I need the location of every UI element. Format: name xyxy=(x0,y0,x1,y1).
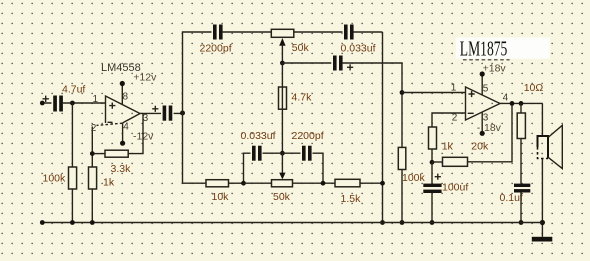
node output 20k riser xyxy=(510,101,515,106)
wire top row to right riser xyxy=(353,31,382,33)
svg-text:18v: 18v xyxy=(484,122,502,134)
capacitor 2200pf lower xyxy=(301,146,313,161)
resistor 1.5k xyxy=(335,179,360,187)
resistor 1k U2 xyxy=(429,127,437,149)
capacitor 100uf electrolytic (+) xyxy=(423,174,441,193)
wire 100k left lead down xyxy=(71,103,73,223)
resistor 100k right xyxy=(398,147,406,169)
pin number 2 U2 xyxy=(452,113,458,124)
op-amp U2 LM1875 triangle xyxy=(466,87,501,120)
svg-text:+12v: +12v xyxy=(133,72,157,84)
wire LM1875 pin1 xyxy=(402,92,466,94)
wire op-amp U1 pin 4 to -12v xyxy=(120,123,125,146)
capacitor 2200pf top xyxy=(212,25,224,40)
potentiometer 50k bottom box xyxy=(272,180,293,187)
wire op-amp U1 pin 8 to +12v xyxy=(120,81,125,105)
capacitor 0.033uf lower xyxy=(251,146,263,161)
label -12v xyxy=(133,131,154,143)
chip label LM4558 xyxy=(101,62,141,74)
capacitor 4.7uf input xyxy=(43,96,63,112)
value label 1k U2 xyxy=(442,141,454,153)
pin number 5 U2 xyxy=(483,83,489,94)
svg-text:0.1uf: 0.1uf xyxy=(500,192,523,204)
pin number 4 xyxy=(123,122,129,133)
capacitor 0.1uf zobel xyxy=(514,184,530,193)
wire ground bus xyxy=(42,222,542,224)
wire top row middle xyxy=(222,31,271,33)
wire 20k row xyxy=(432,103,512,162)
pin number 2 xyxy=(91,123,97,134)
svg-text:+18v: +18v xyxy=(483,62,507,74)
svg-text:4.7k: 4.7k xyxy=(292,91,313,103)
node after coupling cap xyxy=(180,111,185,116)
value label 100k left xyxy=(43,173,67,185)
node junction after input cap xyxy=(70,101,75,106)
wire wiper node to cap 0.47 xyxy=(282,62,333,64)
pin number 3 output xyxy=(143,113,149,124)
wire speaker drop xyxy=(541,103,543,136)
svg-text:4: 4 xyxy=(123,122,129,133)
wire 3.3k feedback row xyxy=(92,113,143,153)
pin number 3 U2 xyxy=(483,113,489,124)
label +12v xyxy=(133,72,157,84)
potentiometer 50k bottom wiper arrow xyxy=(279,153,285,179)
value label 100uf xyxy=(442,182,468,194)
value label 3.3k xyxy=(111,163,132,175)
node bottom row left xyxy=(241,181,246,186)
node bottom row right xyxy=(321,181,326,186)
white label box xyxy=(456,38,550,59)
value label 0.033uf lower xyxy=(241,130,276,142)
value label 50k bottom xyxy=(273,191,291,203)
svg-text:2: 2 xyxy=(452,113,458,124)
value label 10ohm xyxy=(524,82,544,94)
pin number 4 U2 xyxy=(503,93,509,104)
wire bottom row left xyxy=(183,182,207,184)
svg-text:20k: 20k xyxy=(471,141,489,153)
capacitor 0.033uf top xyxy=(343,25,355,40)
wire U2 pin 5 to +18v xyxy=(480,71,485,95)
node 100k ground xyxy=(400,220,405,225)
node 100k ground left xyxy=(70,220,75,225)
label +18v xyxy=(483,62,507,74)
value label 0.1uf xyxy=(500,192,523,204)
speaker LS1 xyxy=(538,125,563,168)
ground bar xyxy=(532,237,553,242)
wire 0.1uf to ground xyxy=(520,193,522,223)
node input terminal xyxy=(40,101,45,106)
wire U1 output to coupling cap xyxy=(140,112,183,114)
pin number 1 U2 xyxy=(451,83,457,94)
svg-text:2200pf: 2200pf xyxy=(292,130,324,142)
wire speaker to ground xyxy=(541,159,543,237)
wire U2 pin 3 to -18v xyxy=(480,112,485,136)
potentiometer 50k top wiper arrow xyxy=(279,38,285,63)
wire left riser of tone network xyxy=(183,32,214,183)
wire cap to LM1875 input riser xyxy=(343,63,403,223)
value label 2200pf top xyxy=(200,43,232,55)
node wiper junction xyxy=(280,61,285,66)
svg-text:1: 1 xyxy=(451,83,457,94)
node 1k ground left xyxy=(90,220,95,225)
wire 1.5k to right riser xyxy=(360,182,383,184)
svg-text:10k: 10k xyxy=(212,191,230,203)
value label 1.5k xyxy=(341,193,362,205)
svg-text:4.7uf: 4.7uf xyxy=(62,84,85,96)
node right riser ground xyxy=(380,220,385,225)
value label 1k left xyxy=(103,177,115,189)
wire pot to node right xyxy=(293,182,336,184)
wire mid cap row xyxy=(244,153,324,183)
svg-text:3: 3 xyxy=(483,113,489,124)
wire node to pot xyxy=(244,182,272,184)
resistor 1k first stage xyxy=(89,167,97,189)
node feedback junction xyxy=(430,160,435,165)
svg-text:0.033uf: 0.033uf xyxy=(341,43,376,55)
wire 1k to 20k node xyxy=(431,149,433,162)
resistor 10ohm xyxy=(517,113,525,139)
svg-text:5: 5 xyxy=(483,83,489,94)
svg-text:100k: 100k xyxy=(402,172,426,184)
value label 2200pf lower xyxy=(292,130,324,142)
wire 10ohm lead xyxy=(520,103,522,184)
svg-text:50k: 50k xyxy=(292,42,310,54)
wire U2 pin2 to 1k xyxy=(432,113,466,127)
resistor 10k xyxy=(206,180,229,187)
svg-text:1.5k: 1.5k xyxy=(341,193,362,205)
svg-text:1k: 1k xyxy=(103,177,115,189)
resistor 20k feedback xyxy=(443,157,468,166)
svg-text:2200pf: 2200pf xyxy=(200,43,232,55)
wire 4.7k to mid node xyxy=(281,63,283,153)
value label 100k right xyxy=(402,172,426,184)
node ground bus left end xyxy=(40,220,45,225)
resistor 100k input bias xyxy=(69,167,77,189)
svg-text:3.3k: 3.3k xyxy=(111,163,132,175)
svg-text:100k: 100k xyxy=(43,173,67,185)
wire 10k to node xyxy=(229,182,244,184)
svg-text:0.033uf: 0.033uf xyxy=(241,130,276,142)
wire U2 output xyxy=(500,102,542,104)
value label 4.7uf xyxy=(62,84,85,96)
wire right riser down to bottom xyxy=(382,32,384,223)
node output 10ohm xyxy=(519,101,524,106)
wire top row right xyxy=(294,31,344,33)
node right riser bottom row xyxy=(380,181,385,186)
svg-text:1k: 1k xyxy=(442,141,454,153)
value label 0.033uf top xyxy=(341,43,376,55)
node 100uf ground xyxy=(430,220,435,225)
svg-text:2: 2 xyxy=(91,123,97,134)
node mid caps junction xyxy=(280,151,285,156)
capacitor coupling after U1 (+) xyxy=(152,106,173,121)
svg-text:LM1875: LM1875 xyxy=(460,36,508,60)
resistor 4.7k xyxy=(279,87,287,109)
chip label LM1875 xyxy=(460,36,508,60)
svg-text:-: - xyxy=(477,122,481,134)
value label 50k top xyxy=(292,42,310,54)
svg-text:50k: 50k xyxy=(273,191,291,203)
node speaker ground xyxy=(540,220,545,225)
svg-text:4: 4 xyxy=(503,93,509,104)
svg-text:100uf: 100uf xyxy=(442,182,468,194)
wire 100uf leads xyxy=(431,162,433,222)
node 0.1uf ground xyxy=(519,220,524,225)
node LM1875 input junction xyxy=(400,90,405,95)
pin number 8 xyxy=(123,92,129,103)
wire pin2 node vertical xyxy=(91,127,93,223)
capacitor electrolytic mid (+) xyxy=(331,56,353,71)
dashed underline xyxy=(463,59,510,61)
value label 20k xyxy=(471,141,489,153)
svg-text:10Ω: 10Ω xyxy=(524,82,544,94)
svg-text:1: 1 xyxy=(93,94,99,105)
wire input to op-amp U1 pin1 xyxy=(42,102,105,104)
svg-text:8: 8 xyxy=(123,92,129,103)
pin number 1 xyxy=(93,94,99,105)
value label 10k xyxy=(212,191,230,203)
op-amp U1 LM4558 triangle xyxy=(97,96,141,125)
resistor 3.3k feedback xyxy=(105,150,128,157)
value label 4.7k xyxy=(292,91,313,103)
node pin2 junction xyxy=(90,151,95,156)
label -18v xyxy=(477,122,502,134)
potentiometer 50k top box xyxy=(271,29,294,37)
